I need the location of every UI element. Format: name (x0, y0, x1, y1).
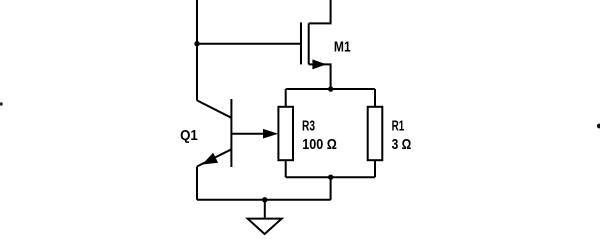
wire: bottom ground bus (197, 199, 331, 201)
wire: Q1 emitter diagonal (197, 149, 231, 166)
transistor Q1 base bar (230, 99, 232, 167)
svg-text:100 Ω: 100 Ω (302, 137, 337, 153)
transistor Q1 base-lead arrow (263, 129, 278, 139)
node D junction dot (ground tap) (262, 197, 267, 202)
wire: top resistor bus (286, 88, 375, 90)
wire: R1 bottom lead (374, 160, 376, 177)
wire: R1 top lead (374, 89, 376, 107)
wire: M1 source lead (309, 64, 331, 89)
wire: gate lead horizontal to M1 (197, 43, 301, 45)
ground (248, 219, 282, 234)
resistor R1 body (368, 107, 383, 160)
resistor R3 body (278, 107, 293, 160)
wire: Q1 base lead to R3 (231, 133, 272, 135)
wire: clipped fragment at right edge (597, 124, 600, 129)
wire: R3 bottom lead (285, 160, 287, 177)
node C junction dot (resistor bottom bus) (328, 175, 333, 180)
svg-text:M1: M1 (334, 40, 351, 56)
svg-text:3 Ω: 3 Ω (392, 137, 412, 153)
wire: R3 top lead (285, 89, 287, 107)
wire: clipped fragment at left edge (0, 103, 3, 106)
node A junction dot (gate tap) (194, 41, 199, 46)
svg-text:R1: R1 (392, 119, 405, 135)
transistor M1 channel bar (308, 23, 310, 64)
wire: M1 drain lead (309, 0, 331, 23)
wire: Q1 emitter down to ground bus (196, 167, 198, 200)
wire: ground stub (264, 200, 266, 218)
wire: bottom resistor bus (286, 176, 375, 178)
transistor M1 source arrow (312, 59, 326, 69)
node B junction dot (M1 source / resistor top bus) (328, 86, 333, 91)
svg-text:Q1: Q1 (180, 128, 198, 144)
transistor M1 gate bar (300, 22, 302, 64)
wire: Q1 collector diagonal (197, 100, 231, 117)
wire: resistor bus down to ground bus (330, 177, 332, 200)
svg-text:R3: R3 (302, 119, 315, 135)
transistor Q1 emitter arrow (200, 153, 218, 170)
wire: left vertical from top edge to Q1 collector (196, 0, 198, 101)
